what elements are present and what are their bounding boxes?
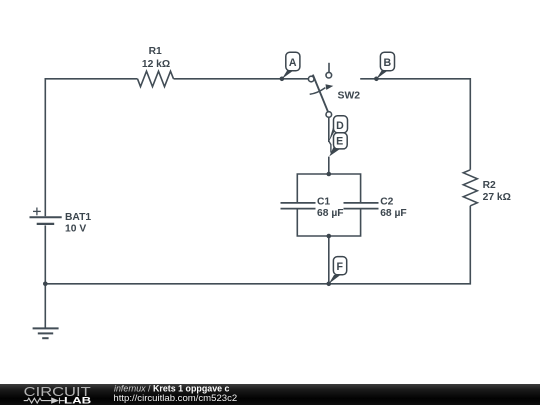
svg-text:R1: R1	[149, 46, 162, 57]
wire cap bank to bottom rail	[328, 236, 330, 284]
svg-text:D: D	[336, 120, 344, 132]
node E flag	[329, 133, 347, 157]
capacitor C2	[344, 203, 379, 209]
label C1 value	[317, 196, 344, 219]
wire right rail top	[360, 79, 470, 170]
wire R2 to bottom rail and bottom rail	[45, 206, 470, 284]
footer logo squiggle	[24, 398, 65, 404]
wire R1 to switch	[174, 78, 310, 80]
junction node cap bottom	[327, 234, 332, 239]
junction node cap top	[327, 172, 332, 177]
wire battery to bottom rail	[44, 225, 46, 283]
svg-text:R2: R2	[483, 180, 496, 191]
svg-text:E: E	[336, 136, 343, 148]
svg-text:10 V: 10 V	[65, 224, 86, 235]
svg-text:infernux / Krets 1 oppgave c: infernux / Krets 1 oppgave c	[114, 383, 230, 393]
footer bar	[0, 384, 540, 405]
junction node at B	[374, 77, 379, 82]
svg-text:LAB: LAB	[64, 395, 92, 405]
node B flag	[376, 52, 394, 79]
node A flag	[282, 52, 300, 79]
wire node D to node E	[329, 141, 331, 152]
wire cap bank top rail	[297, 174, 360, 202]
battery BAT1	[30, 208, 62, 224]
svg-text:BAT1: BAT1	[65, 212, 91, 223]
wire switch to node D	[328, 117, 330, 142]
svg-text:C2: C2	[380, 196, 393, 207]
svg-text:F: F	[337, 261, 344, 273]
wire node E to cap bank	[328, 157, 330, 174]
svg-text:B: B	[383, 57, 391, 69]
label R2 value	[483, 180, 511, 203]
wire cap bank bottom rail	[297, 209, 360, 236]
junction node ground	[43, 282, 48, 287]
svg-text:68 µF: 68 µF	[380, 208, 407, 219]
switch SW2	[308, 63, 333, 117]
resistor R2	[463, 170, 477, 206]
node D flag	[329, 116, 348, 142]
junction node F	[327, 282, 332, 287]
svg-text:C1: C1	[317, 196, 330, 207]
svg-text:http://circuitlab.com/cm523c2: http://circuitlab.com/cm523c2	[113, 393, 237, 404]
svg-text:12 kΩ: 12 kΩ	[142, 59, 170, 70]
wire top-left rail	[45, 79, 137, 217]
footer logo diode	[51, 397, 59, 403]
label BAT1 value	[65, 212, 91, 235]
svg-text:SW2: SW2	[338, 90, 361, 101]
ground	[33, 284, 59, 338]
capacitor C1	[281, 203, 316, 209]
svg-text:A: A	[289, 57, 297, 69]
label R1 value	[142, 46, 170, 70]
svg-text:27 kΩ: 27 kΩ	[483, 192, 511, 203]
junction node at A	[280, 77, 285, 82]
resistor R1	[138, 71, 174, 87]
node F flag	[329, 257, 347, 284]
svg-text:68 µF: 68 µF	[317, 208, 344, 219]
label C2 value	[380, 196, 407, 219]
